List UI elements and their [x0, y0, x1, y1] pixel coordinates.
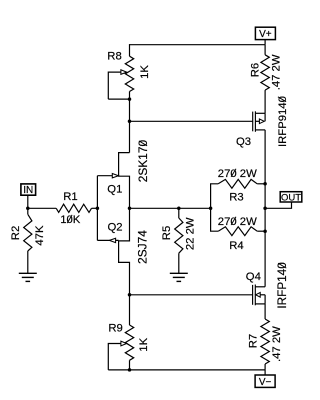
svg-text:Q3: Q3	[236, 136, 251, 148]
resistor R4	[211, 208, 219, 231]
svg-text:R9: R9	[108, 323, 122, 335]
svg-text:R2: R2	[10, 226, 22, 240]
resistor R8	[125, 56, 133, 91]
svg-text:.47 2W: .47 2W	[270, 54, 282, 90]
R9 wiper arrow	[108, 344, 121, 370]
svg-text:R8: R8	[107, 51, 121, 63]
terminal V+	[255, 27, 275, 39]
wire V+ stub	[264, 40, 266, 45]
svg-text:IN: IN	[23, 185, 33, 196]
resistor R5	[178, 208, 180, 218]
svg-text:OUT: OUT	[281, 192, 301, 203]
resistor R9	[129, 295, 131, 325]
terminal V-	[255, 375, 275, 387]
node Q3 gate junction	[128, 120, 132, 124]
wire bottom bus	[130, 369, 266, 371]
wire Q3 drain to output bus	[264, 130, 266, 287]
svg-text:270 2W: 270 2W	[218, 216, 257, 228]
node Q4 gate junction	[128, 293, 132, 297]
junction R9 bottom	[128, 368, 132, 372]
wire to Q3 gate	[130, 120, 254, 122]
resistor R1	[28, 207, 56, 209]
svg-text:Q2: Q2	[108, 222, 123, 234]
wire V- stub	[264, 370, 266, 375]
wire R8 to gate node	[129, 99, 131, 121]
wire R8 top lead	[129, 44, 131, 56]
node R3 right	[263, 182, 267, 186]
resistor R3	[211, 184, 219, 209]
terminal OUT	[280, 192, 302, 202]
transistor Q4	[252, 285, 254, 305]
ground (R5)	[170, 272, 188, 274]
wire top bus	[130, 44, 266, 46]
svg-text:Q4: Q4	[246, 271, 261, 283]
svg-text:1K: 1K	[138, 337, 150, 351]
svg-text:R3: R3	[229, 192, 243, 204]
wire Q1 drain lead	[129, 121, 131, 152]
wire source bus	[130, 207, 211, 209]
svg-text:.47 2W: .47 2W	[271, 326, 283, 362]
svg-text:V+: V+	[259, 29, 272, 40]
resistor R6	[264, 45, 266, 55]
svg-text:22 2W: 22 2W	[184, 217, 196, 250]
resistor R2	[27, 208, 29, 214]
node JFET source junction	[128, 207, 132, 211]
resistor R7	[264, 304, 266, 319]
node R5 top	[177, 207, 181, 211]
wire gate bus	[96, 176, 98, 241]
svg-text:47K: 47K	[34, 225, 46, 246]
wire to Q4 gate	[130, 294, 254, 296]
node input junction	[26, 207, 30, 211]
svg-text:IRFP9140: IRFP9140	[277, 96, 289, 147]
svg-text:10K: 10K	[60, 214, 81, 226]
wire IN stub	[27, 195, 29, 208]
svg-text:R5: R5	[161, 226, 173, 240]
svg-text:1K: 1K	[139, 65, 151, 79]
terminal IN	[21, 184, 36, 195]
svg-text:2SK170: 2SK170	[136, 139, 150, 182]
transistor Q3	[252, 112, 254, 132]
ground (R2)	[19, 272, 37, 274]
svg-text:270 2W: 270 2W	[218, 168, 257, 180]
node OUT junction	[263, 207, 267, 211]
wire OUT stub	[265, 202, 291, 208]
svg-text:R1: R1	[63, 191, 77, 203]
svg-text:IRFP140: IRFP140	[276, 262, 289, 309]
svg-text:R6: R6	[249, 63, 261, 77]
svg-text:R7: R7	[248, 334, 260, 348]
svg-text:2SJ74: 2SJ74	[136, 230, 150, 264]
svg-text:R4: R4	[229, 240, 243, 252]
R8 wiper arrow	[108, 72, 121, 99]
junction R8 bottom	[128, 97, 132, 101]
svg-text:Q1: Q1	[107, 183, 122, 195]
node R3/R4 left	[209, 207, 213, 211]
svg-text:V−: V−	[259, 377, 272, 388]
transistor Q2	[119, 208, 130, 294]
wire R8 wiper to bottom	[108, 98, 129, 100]
node R4 right	[263, 229, 267, 233]
transistor Q1	[119, 153, 130, 209]
node input gate junction	[96, 207, 100, 211]
